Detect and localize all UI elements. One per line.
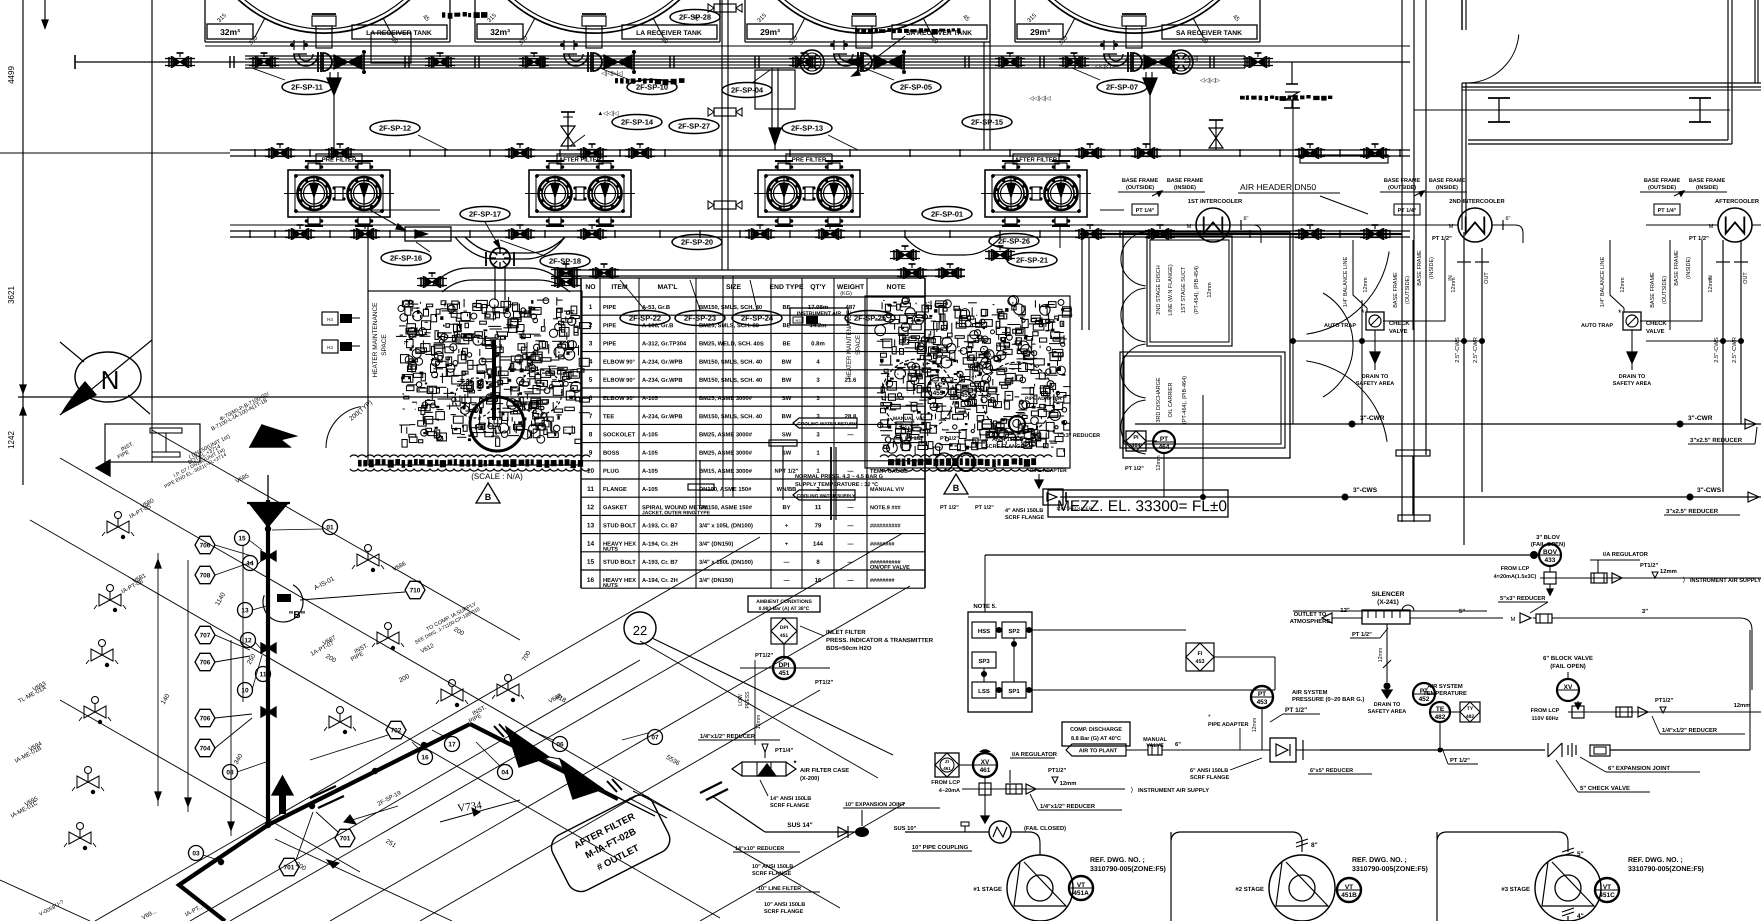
svg-text:4=20mA(1.5x3C): 4=20mA(1.5x3C) <box>1494 574 1537 580</box>
svg-text:32m³: 32m³ <box>220 27 240 37</box>
north arrow <box>75 352 141 402</box>
svg-text:14: 14 <box>587 541 595 548</box>
valve cluster <box>425 277 432 287</box>
tag oval 2F-SP-26 <box>989 234 1039 249</box>
svg-text:PT 1/2": PT 1/2" <box>940 505 959 511</box>
svg-text:SAFETY AREA: SAFETY AREA <box>1368 709 1407 715</box>
svg-text:▲◁◁|◁: ▲◁◁|◁ <box>597 111 619 117</box>
svg-text:PIPE: PIPE <box>603 323 616 329</box>
hex tag 707 <box>195 626 215 643</box>
dimension line left <box>22 0 24 485</box>
svg-text:(KG): (KG) <box>840 291 852 297</box>
svg-text:4" ANSI 150LB: 4" ANSI 150LB <box>985 437 1023 443</box>
svg-text:PT 1/2": PT 1/2" <box>1125 466 1144 472</box>
svg-text:(OUTSIDE): (OUTSIDE) <box>1388 185 1416 191</box>
cooler circle <box>1458 208 1492 242</box>
valve cluster <box>1368 148 1375 158</box>
instrument PT 464 <box>1153 431 1175 453</box>
svg-text:SP1: SP1 <box>1008 689 1020 695</box>
svg-text:433: 433 <box>1545 557 1556 564</box>
svg-text:◁|◁▷|◁: ◁|◁▷|◁ <box>601 71 623 77</box>
valve cluster <box>753 229 760 239</box>
iso valve <box>91 649 102 661</box>
svg-text:DPI: DPI <box>780 625 789 631</box>
svg-text:(INSIDE): (INSIDE) <box>1436 185 1458 191</box>
svg-text:(OUTSIDE): (OUTSIDE) <box>1126 185 1154 191</box>
svg-text:1/4"x1/2" REDUCER: 1/4"x1/2" REDUCER <box>1662 728 1718 734</box>
tag oval 2F-SP-14 <box>612 115 662 130</box>
svg-text:ELBOW 90°: ELBOW 90° <box>603 378 636 384</box>
xv461 group <box>935 753 959 777</box>
svg-text:PIPE ADAPTER: PIPE ADAPTER <box>1025 396 1062 402</box>
svg-text:*: * <box>1361 308 1365 318</box>
svg-text:A-105: A-105 <box>642 451 659 457</box>
valve cluster <box>358 229 365 239</box>
svg-text:(FAIL OPEN): (FAIL OPEN) <box>1550 664 1586 670</box>
valve cluster <box>1303 148 1310 158</box>
line y611 to silencer <box>1293 610 1487 612</box>
svg-text:PT1/2": PT1/2" <box>1640 563 1658 569</box>
compressor stage 1 <box>1007 855 1073 921</box>
valve cluster <box>293 229 300 239</box>
svg-text:08: 08 <box>226 769 234 776</box>
svg-text:PT 1/2": PT 1/2" <box>1689 236 1709 242</box>
svg-text:VALVE: VALVE <box>1146 743 1164 749</box>
svg-text:706: 706 <box>200 715 211 722</box>
ambient conditions box <box>748 596 820 612</box>
svg-text:12mm: 12mm <box>1363 277 1369 293</box>
svg-text:COOLING WATER SUPPLY: COOLING WATER SUPPLY <box>797 493 855 498</box>
svg-text:6"x5" REDUCER: 6"x5" REDUCER <box>1310 768 1353 774</box>
svg-text:PT1/4": PT1/4" <box>775 748 793 754</box>
valve cluster <box>633 148 640 158</box>
svg-text:LSS: LSS <box>978 689 990 695</box>
svg-text:2F-SP-16: 2F-SP-16 <box>390 254 422 263</box>
svg-text:PT 1/2": PT 1/2" <box>1352 632 1372 638</box>
flanged elbow <box>834 54 858 66</box>
svg-text:SUS 14": SUS 14" <box>787 822 812 829</box>
thick line right part <box>1080 233 1402 235</box>
svg-text:6" BLOCK VALVE: 6" BLOCK VALVE <box>1543 656 1593 662</box>
svg-text:17: 17 <box>448 741 456 748</box>
svg-text:14"x10" REDUCER: 14"x10" REDUCER <box>735 846 784 852</box>
svg-text:BASE FRAME: BASE FRAME <box>1167 178 1204 184</box>
svg-text:PT 1/2": PT 1/2" <box>1432 236 1452 242</box>
valve cluster <box>1083 229 1090 239</box>
instrument PT 452 <box>1413 683 1435 705</box>
svg-text:07: 07 <box>651 734 659 741</box>
instrument TC 455 <box>928 378 949 399</box>
filter skid PRE FILTER <box>288 170 390 217</box>
svg-text:LOW: LOW <box>738 694 744 706</box>
iso tee marks <box>261 551 270 561</box>
riser from arrow1 <box>333 95 335 150</box>
svg-text:AIR TO PLANT: AIR TO PLANT <box>1079 748 1118 754</box>
svg-text:JACKET, OUTER RING TYPE: JACKET, OUTER RING TYPE <box>642 510 711 516</box>
svg-text:461: 461 <box>943 766 951 771</box>
svg-text:3/4" x 180L (DN100): 3/4" x 180L (DN100) <box>699 560 753 566</box>
iso valve <box>84 706 95 718</box>
main 6in air line <box>1320 749 1545 751</box>
svg-text:AFTERCOOLER: AFTERCOOLER <box>1715 199 1760 205</box>
svg-text:12: 12 <box>244 637 252 644</box>
svg-text:79: 79 <box>815 523 822 529</box>
svg-text:SAFETY AREA: SAFETY AREA <box>1356 381 1395 387</box>
svg-text:2F-SP-17: 2F-SP-17 <box>469 210 501 219</box>
svg-text:2F-SP-07: 2F-SP-07 <box>1106 83 1138 92</box>
svg-text:AIR SYSTEM: AIR SYSTEM <box>1292 690 1328 696</box>
svg-text:(PT-454), (PIB-454): (PT-454), (PIB-454) <box>1194 266 1200 314</box>
wall lines lower <box>1468 139 1728 141</box>
svg-text:3: 3 <box>589 340 593 347</box>
iso up arrow <box>279 790 286 814</box>
header3 flange ticks <box>249 230 251 238</box>
svg-text:5": 5" <box>1459 609 1465 615</box>
svg-text:10" PIPE COUPLING: 10" PIPE COUPLING <box>912 845 969 851</box>
svg-text:(INSIDE): (INSIDE) <box>1174 185 1196 191</box>
svg-text:0.8m: 0.8m <box>811 341 825 347</box>
wall verticals <box>1401 0 1403 522</box>
balance line from header3 <box>1081 237 1083 330</box>
riser to manifold A <box>721 0 723 270</box>
svg-text:3310790-005(ZONE:F5): 3310790-005(ZONE:F5) <box>1352 866 1428 873</box>
svg-text:DX: DX <box>901 424 907 429</box>
vert continuation <box>1202 395 1204 497</box>
svg-text:BM25, ASME 3000#: BM25, ASME 3000# <box>699 396 753 402</box>
svg-text:BASE FRAME: BASE FRAME <box>1650 272 1656 308</box>
svg-text:CHECK: CHECK <box>1389 321 1410 327</box>
svg-text:29m³: 29m³ <box>760 27 780 37</box>
air filter symbol <box>732 762 796 776</box>
svg-text:ELBOW 90°: ELBOW 90° <box>603 360 636 366</box>
flag COOLING WATER SUPPLY <box>793 490 855 500</box>
svg-text:IN: IN <box>1448 275 1454 281</box>
valve cluster <box>1251 57 1258 67</box>
svg-text:11: 11 <box>587 486 594 493</box>
instrument VT 451B <box>1337 878 1361 902</box>
vert from note5 <box>984 555 986 612</box>
svg-text:5: 5 <box>589 377 593 384</box>
iso thick pipe main <box>179 500 268 921</box>
valve cluster <box>433 57 440 67</box>
iso valve <box>497 684 508 696</box>
svg-text:PT 1/4": PT 1/4" <box>1398 208 1417 214</box>
triangle B left <box>476 483 500 503</box>
svg-text:H3: H3 <box>327 317 333 322</box>
drop arrow tank3 <box>1145 72 1147 78</box>
svg-text:BASE FRAME: BASE FRAME <box>1122 178 1159 184</box>
svg-text:SCRF FLANGE: SCRF FLANGE <box>985 444 1024 450</box>
svg-text:A-194, Cr. 2H: A-194, Cr. 2H <box>642 542 678 548</box>
svg-text:AMBIENT CONDITIONS: AMBIENT CONDITIONS <box>756 599 812 605</box>
svg-text:TY: TY <box>1467 706 1474 712</box>
platform line <box>205 45 1410 47</box>
svg-text:3/4" (DN150): 3/4" (DN150) <box>699 578 733 584</box>
svg-text:BE: BE <box>782 341 790 347</box>
T support right <box>1396 450 1430 456</box>
svg-text:702: 702 <box>391 727 402 734</box>
svg-text:NOTE.9 ###: NOTE.9 ### <box>870 505 901 511</box>
cooler circle <box>1718 208 1752 242</box>
svg-text:3621: 3621 <box>7 286 16 304</box>
svg-text:BASE FRAME: BASE FRAME <box>1384 178 1421 184</box>
svg-text:1/4" BALANCE LINE: 1/4" BALANCE LINE <box>1600 256 1606 307</box>
svg-text:SP2: SP2 <box>1008 629 1020 635</box>
line to atmosphere <box>985 554 1537 556</box>
svg-text:#2 STAGE: #2 STAGE <box>1235 887 1264 893</box>
callout circle 07 <box>648 730 663 745</box>
svg-text:MANUAL V/V: MANUAL V/V <box>893 416 925 422</box>
svg-text:✦: ✦ <box>792 759 797 766</box>
svg-text:A-312, Gr.TP304: A-312, Gr.TP304 <box>642 341 687 347</box>
svg-text:14.2m: 14.2m <box>809 323 826 329</box>
valve cluster <box>823 229 830 239</box>
svg-text:A-105: A-105 <box>642 396 659 402</box>
tag oval 2F-SP-11 <box>282 80 332 95</box>
b triangle right <box>944 474 968 494</box>
h3 boxes left <box>322 312 338 325</box>
svg-text:FROM LCP: FROM LCP <box>1501 566 1530 572</box>
svg-text:NORMAL PRESS. 4.3 ~ 4.5 BAR G: NORMAL PRESS. 4.3 ~ 4.5 BAR G <box>795 474 883 480</box>
svg-text:BM25, ASME 3000#: BM25, ASME 3000# <box>699 451 753 457</box>
svg-text:—: — <box>847 542 853 548</box>
svg-text:BM150, SMLS, SCH. 40: BM150, SMLS, SCH. 40 <box>699 305 762 311</box>
after filter label box <box>547 790 675 896</box>
pipe coupling <box>905 831 989 833</box>
svg-text:BM15, ASME 3000#: BM15, ASME 3000# <box>699 469 753 475</box>
column line <box>151 0 153 400</box>
sus14 line <box>765 831 860 833</box>
MEZZ label box <box>1048 490 1228 517</box>
svg-text:453: 453 <box>1257 699 1268 706</box>
valve cluster <box>585 148 592 158</box>
svg-text:453: 453 <box>1195 659 1204 665</box>
valve cluster <box>1368 229 1375 239</box>
tag oval 2F-SP-28 <box>670 10 720 25</box>
svg-text:PRE FILTER: PRE FILTER <box>792 157 827 163</box>
BOV circle <box>1530 551 1538 559</box>
svg-text:PT1/2": PT1/2" <box>755 653 773 659</box>
svg-text:SCRF FLANGE: SCRF FLANGE <box>752 871 791 877</box>
valve cluster <box>257 57 264 67</box>
svg-text:FLANGE: FLANGE <box>603 487 627 493</box>
svg-text:BASE FRAME: BASE FRAME <box>1429 178 1466 184</box>
svg-text:NO: NO <box>585 284 595 291</box>
iso valve <box>357 554 368 566</box>
svg-text:MAT'L: MAT'L <box>657 284 677 291</box>
svg-text:—: — <box>847 578 853 584</box>
svg-text:OUT: OUT <box>1484 272 1490 284</box>
svg-text:PT 1/4": PT 1/4" <box>1658 208 1677 214</box>
callout circle 08 <box>223 765 238 780</box>
svg-text:2F-SP-05: 2F-SP-05 <box>900 83 932 92</box>
instrument air line <box>560 269 965 271</box>
svg-text:SCRF FLANGE: SCRF FLANGE <box>764 909 803 915</box>
hex tag 708 <box>195 566 215 583</box>
valve cluster <box>597 268 604 278</box>
svg-text:STUD BOLT: STUD BOLT <box>603 560 636 566</box>
callout circle 10 <box>238 683 253 698</box>
svg-text:10: 10 <box>587 468 595 475</box>
svg-text:—: — <box>784 578 790 584</box>
svg-text:710: 710 <box>410 587 421 594</box>
svg-text:A-194, Cr. 2H: A-194, Cr. 2H <box>642 578 678 584</box>
svg-text:NUTS: NUTS <box>603 583 618 589</box>
manifold crossover arcs <box>455 237 565 259</box>
svg-text:PIPE ADAPTER: PIPE ADAPTER <box>1208 722 1248 728</box>
svg-text:28.8: 28.8 <box>845 414 857 420</box>
svg-text:15: 15 <box>238 535 246 542</box>
svg-text:PT 1/4": PT 1/4" <box>1136 208 1155 214</box>
svg-text:32m³: 32m³ <box>490 27 510 37</box>
svg-text:(FAIL CLOSED): (FAIL CLOSED) <box>1024 826 1066 832</box>
svg-text:BM150, SMLS, SCH. 40: BM150, SMLS, SCH. 40 <box>699 360 762 366</box>
iso valve <box>377 632 388 644</box>
svg-text:PT1/2": PT1/2" <box>1655 698 1673 704</box>
svg-text:SCRF FLANGE: SCRF FLANGE <box>770 803 809 809</box>
svg-text:704: 704 <box>200 745 211 752</box>
svg-text:*: * <box>1618 308 1622 318</box>
svg-text:BOSS: BOSS <box>603 451 620 457</box>
svg-text:12mm: 12mm <box>1378 648 1384 662</box>
svg-text:(X-200): (X-200) <box>800 776 819 782</box>
svg-text:707: 707 <box>200 632 211 639</box>
tag oval 2F-SP-20 <box>672 235 722 250</box>
parts list table <box>580 278 582 588</box>
svg-text:708: 708 <box>200 572 211 579</box>
svg-text:IN: IN <box>1708 275 1714 281</box>
tag oval 2F-SP-22 <box>620 311 670 326</box>
svg-text:HSS: HSS <box>978 629 990 635</box>
room walls top right <box>1461 0 1463 30</box>
svg-text:2F-SP-04: 2F-SP-04 <box>731 86 764 95</box>
svg-text:PIPE ADAPTER: PIPE ADAPTER <box>1030 468 1067 474</box>
callout circle 13 <box>238 603 253 618</box>
svg-text:A-234, Gr.WPB: A-234, Gr.WPB <box>642 360 683 366</box>
svg-text:◁◁|◁▷: ◁◁|◁▷ <box>1200 78 1220 84</box>
svg-text:VALVE: VALVE <box>1646 329 1665 335</box>
valve cluster <box>559 277 566 287</box>
svg-text:PT 1/2": PT 1/2" <box>1450 758 1470 764</box>
right heater boundary <box>865 296 1070 468</box>
left heater main circle <box>470 397 524 451</box>
svg-text:2F-SP-01: 2F-SP-01 <box>931 210 963 219</box>
riser heavy <box>830 447 832 520</box>
callout circle 11 <box>256 667 271 682</box>
filter skid AFTER FILTER <box>985 170 1087 217</box>
svg-text:AUTO TRAP: AUTO TRAP <box>1581 323 1613 329</box>
svg-text:LINE (W.N FLANGE): LINE (W.N FLANGE) <box>1168 264 1174 316</box>
svg-text:(X-241): (X-241) <box>1377 599 1399 606</box>
svg-text:BASE FRAME: BASE FRAME <box>1393 272 1399 308</box>
svg-text:H3: H3 <box>795 318 801 323</box>
receiver tank T1 <box>204 0 206 42</box>
svg-text:M: M <box>1186 224 1191 230</box>
valve cluster <box>585 229 592 239</box>
svg-text:10" LINE FILTER: 10" LINE FILTER <box>758 886 801 892</box>
svg-text:H3: H3 <box>327 345 333 350</box>
svg-text:DRAIN TO: DRAIN TO <box>1362 374 1389 380</box>
svg-text:FI: FI <box>1198 651 1203 657</box>
svg-text:29m³: 29m³ <box>1030 27 1050 37</box>
svg-text:1/4"x1/2" REDUCER: 1/4"x1/2" REDUCER <box>1040 804 1096 810</box>
svg-text:10" EXPANSION JOINT: 10" EXPANSION JOINT <box>845 802 906 808</box>
thick flanges bottom <box>700 782 722 793</box>
manifold drop pipes <box>494 268 496 300</box>
valve cluster <box>1083 148 1090 158</box>
svg-text:A-105: A-105 <box>642 469 659 475</box>
svg-text:PT 1/2": PT 1/2" <box>940 436 959 442</box>
svg-text:AIR FILTER CASE: AIR FILTER CASE <box>800 768 849 774</box>
svg-text:⟩: ⟩ <box>1131 786 1134 794</box>
svg-text:PRESSURE (0~20 BAR G.): PRESSURE (0~20 BAR G.) <box>1292 697 1364 703</box>
svg-text:SCRF FLANGE: SCRF FLANGE <box>1005 515 1044 521</box>
valve cluster <box>333 148 340 158</box>
svg-text:12mm: 12mm <box>756 715 762 729</box>
svg-text:1ST STAGE SUCT: 1ST STAGE SUCT <box>1181 266 1187 313</box>
left heater machinery <box>507 399 518 410</box>
diamond f453 <box>1186 643 1214 671</box>
svg-text:8: 8 <box>589 431 593 438</box>
pipe supports H <box>769 440 797 446</box>
svg-text:M: M <box>1708 224 1713 230</box>
svg-text:1/4" BALANCE LINE: 1/4" BALANCE LINE <box>1343 256 1349 307</box>
svg-text:AUTO TRAP: AUTO TRAP <box>1324 323 1356 329</box>
svg-text:1242: 1242 <box>7 431 16 449</box>
svg-text:B: B <box>953 483 960 493</box>
svg-text:12mm: 12mm <box>1252 718 1258 732</box>
svg-text:##########: ########## <box>870 523 901 529</box>
tag oval 2F-SP-15 <box>962 115 1012 130</box>
svg-text:2ND INTERCOOLER: 2ND INTERCOOLER <box>1449 199 1505 205</box>
svg-text:PI: PI <box>1133 435 1139 441</box>
svg-text:BM25, ASME 3000#: BM25, ASME 3000# <box>699 432 753 438</box>
revision cloud <box>880 455 1052 457</box>
left heater boundary <box>367 225 369 291</box>
filter skid PRE FILTER <box>758 170 860 217</box>
svg-text:6" ANSI 150LB: 6" ANSI 150LB <box>1190 768 1228 774</box>
svg-text:PT 1/2": PT 1/2" <box>975 505 994 511</box>
door arc <box>1468 35 1519 83</box>
svg-text:PRESS: PRESS <box>745 691 751 709</box>
valve cluster <box>1067 57 1074 67</box>
3 CWR line <box>1135 423 1761 425</box>
valve cluster <box>173 57 180 67</box>
iso after filter run <box>470 724 618 799</box>
svg-text:(OUTSIDE): (OUTSIDE) <box>1662 276 1668 304</box>
svg-text:A-234, Gr.WPB: A-234, Gr.WPB <box>642 414 683 420</box>
inst pipe box <box>105 424 200 462</box>
svg-text:A-193, Cr. B7: A-193, Cr. B7 <box>642 560 678 566</box>
svg-text:17.08m: 17.08m <box>808 305 828 311</box>
detail circle 22 <box>624 612 656 644</box>
svg-text:PLUG: PLUG <box>603 469 620 475</box>
right edge walls <box>1754 0 1756 83</box>
inline valve on riser <box>714 4 736 12</box>
right heater circles <box>882 359 954 431</box>
svg-text:6" EXPANSION JOINT: 6" EXPANSION JOINT <box>1608 766 1670 772</box>
svg-text:4499: 4499 <box>7 66 16 84</box>
valve cluster <box>273 148 280 158</box>
svg-text:14" ANSI 150LB: 14" ANSI 150LB <box>770 796 811 802</box>
boundary line <box>230 224 1410 226</box>
riser to instrument air <box>722 276 724 497</box>
svg-text:BASE FRAME: BASE FRAME <box>1689 178 1726 184</box>
svg-text:03: 03 <box>192 850 200 857</box>
svg-text:◁◁|◁▷: ◁◁|◁▷ <box>1095 64 1115 70</box>
svg-text:5"x3" REDUCER: 5"x3" REDUCER <box>1500 596 1546 602</box>
svg-text:451C: 451C <box>1599 892 1615 899</box>
